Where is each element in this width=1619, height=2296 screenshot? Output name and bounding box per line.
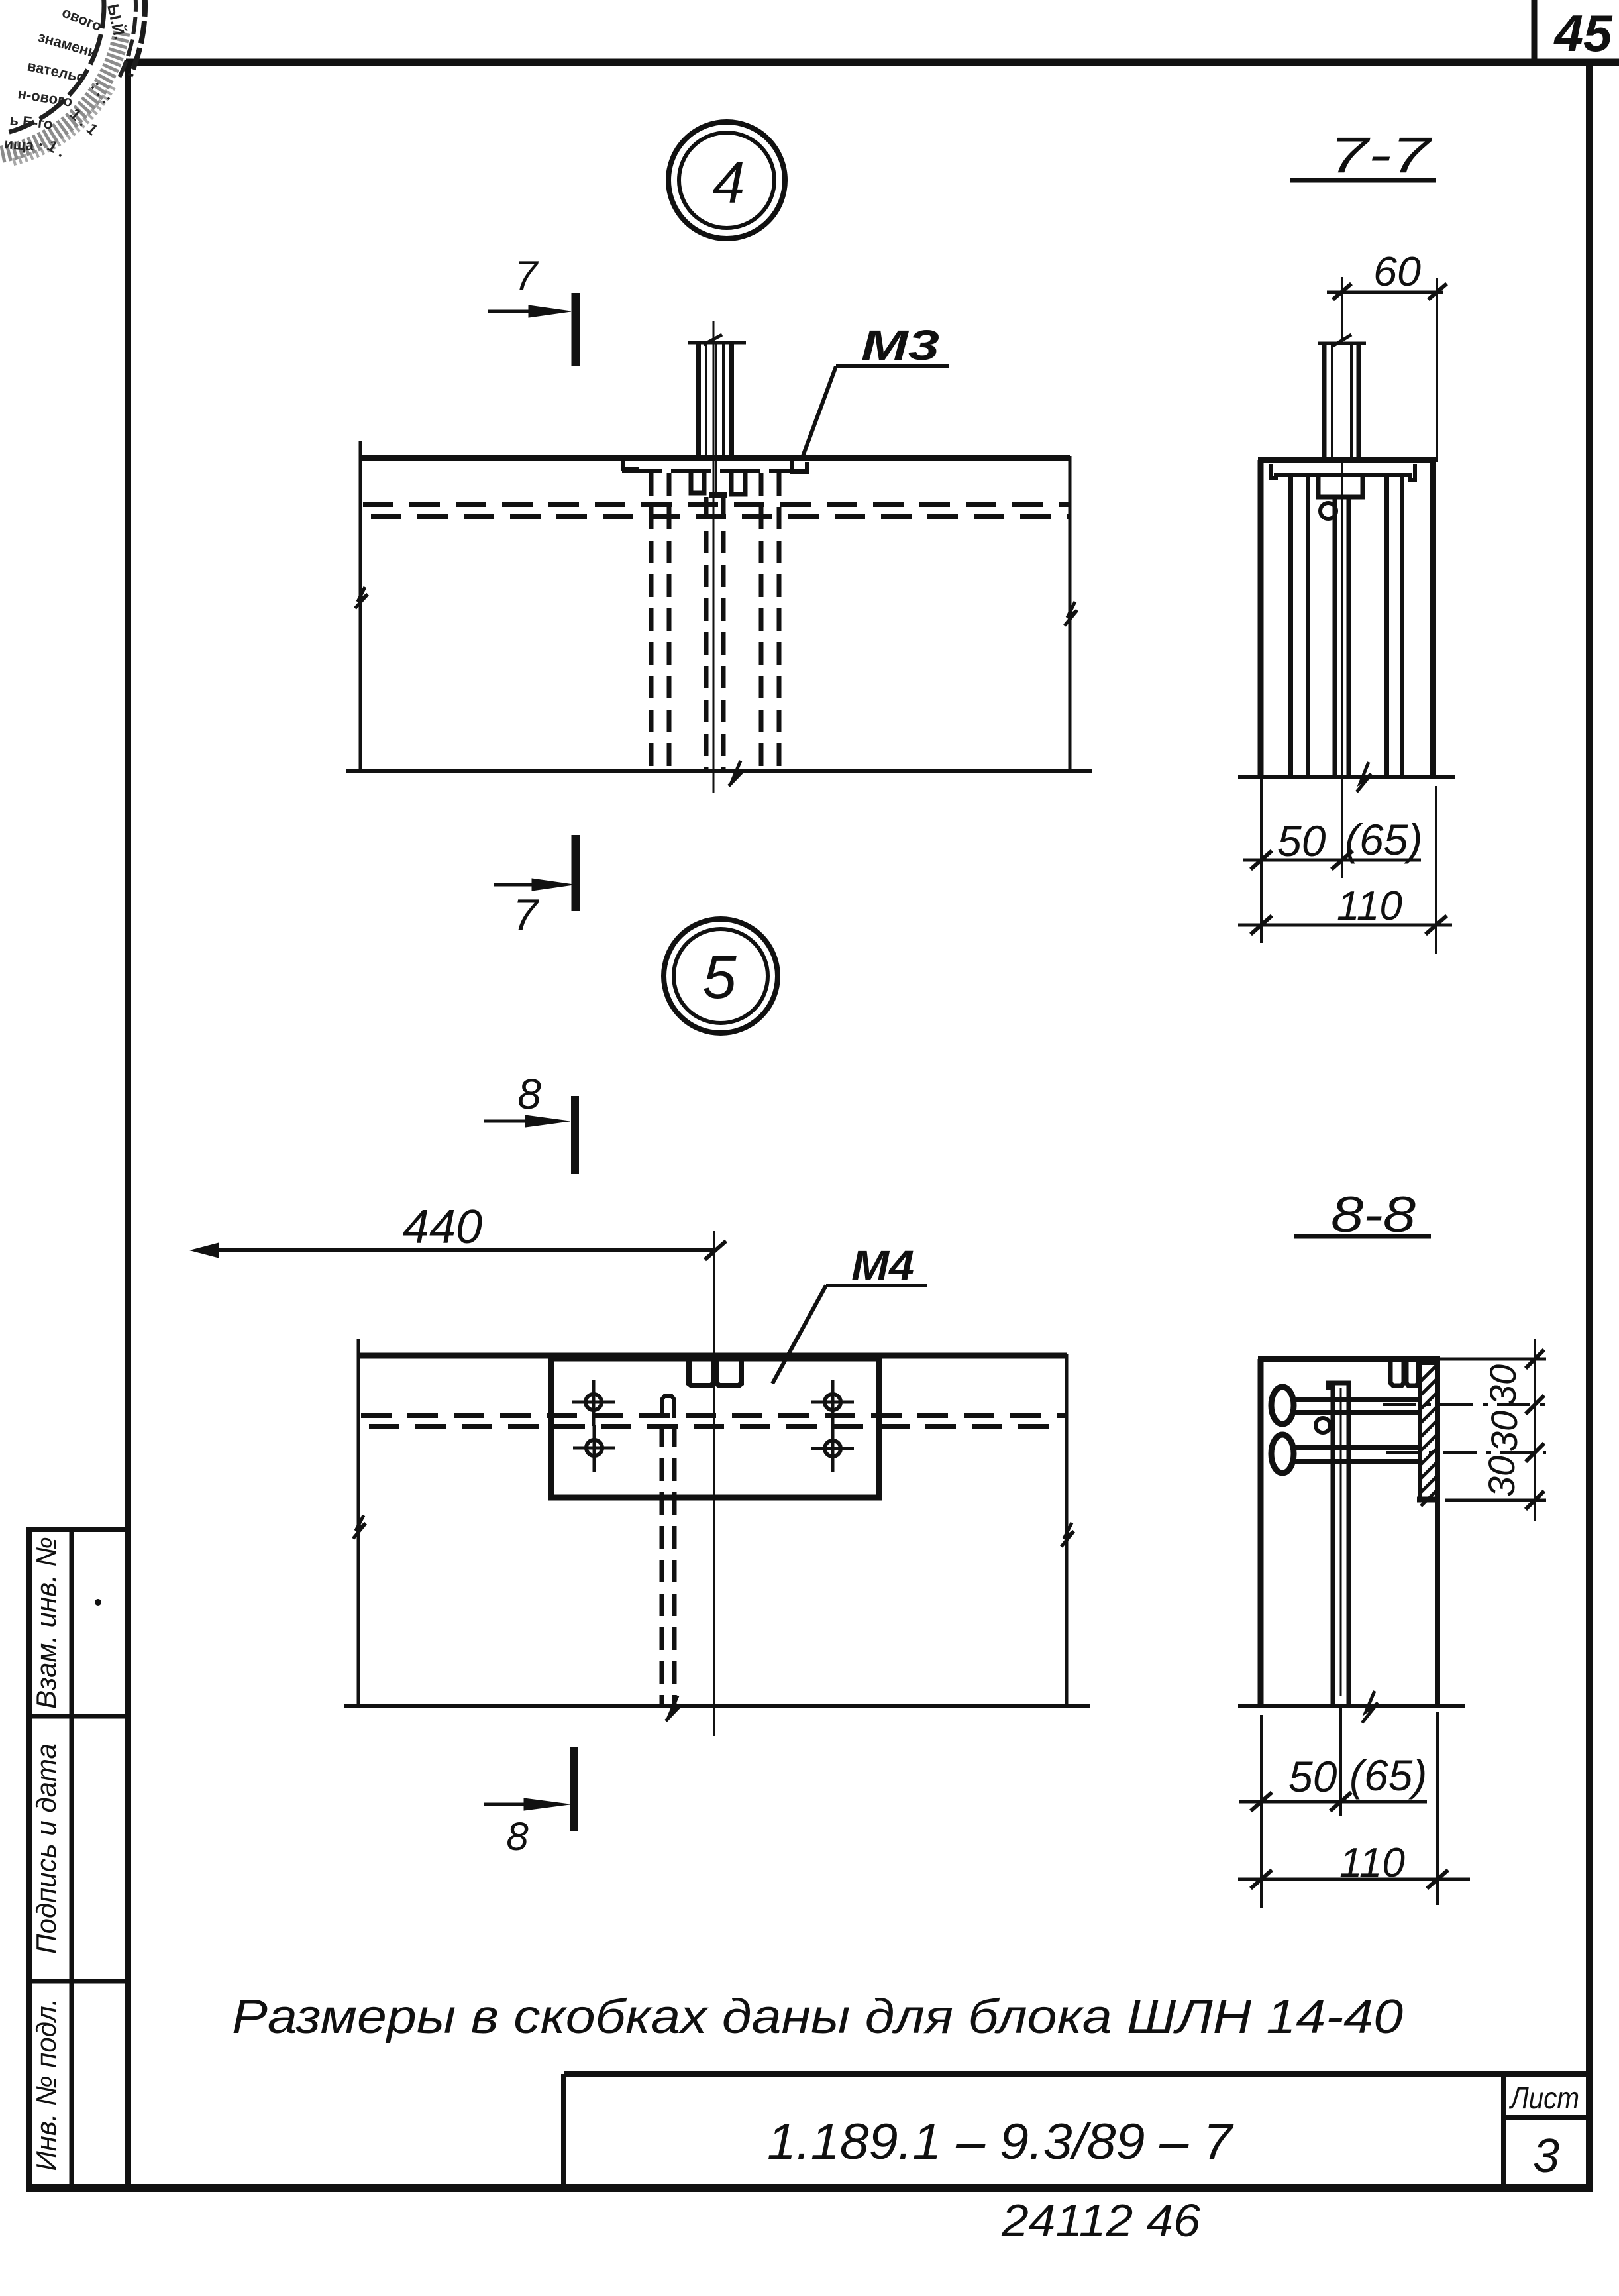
node: hidden anchor loop top [662, 1396, 674, 1418]
node: bolt M3 above plate [688, 341, 746, 345]
wire: hidden anchor line 2 [667, 473, 672, 771]
wire: plate top edge [360, 455, 1070, 461]
wire: plate right edge [1069, 456, 1072, 772]
node: embedded plate (hatched, section) [1420, 1363, 1437, 1500]
svg-text:30: 30 [1482, 1364, 1524, 1405]
node: detail balloon 5 [664, 919, 778, 1033]
node: title block [564, 2074, 1589, 2188]
node: anchor tab left (plan) [689, 1361, 713, 1386]
node: dimension 110 (section 8-8) [1238, 1870, 1470, 1888]
svg-text:4: 4 [713, 150, 745, 215]
wire: underline of 7-7 [1290, 178, 1436, 183]
node: dimension chain 30/30/30 (section 8-8) [1383, 1339, 1546, 1521]
node: hole in anchor strip [1316, 1418, 1330, 1433]
wire: block right edge [1430, 460, 1436, 777]
wire: bolt axis centerline [1341, 460, 1343, 878]
wire: plate top edge [358, 1353, 1067, 1359]
node: bolt hole top-right [811, 1380, 854, 1426]
svg-text:30: 30 [1481, 1456, 1522, 1497]
svg-text:110: 110 [1339, 1840, 1405, 1886]
node: bolt hole bottom-left [573, 1425, 615, 1472]
node: anchor strip (section) [1328, 1383, 1349, 1706]
svg-text:7-7: 7-7 [1330, 127, 1433, 184]
svg-text:Подпись и дата: Подпись и дата [30, 1743, 62, 1954]
node: dimension 50 (65) (section 8-8) [1239, 1706, 1437, 1908]
wire: block right edge [1435, 1359, 1440, 1706]
node: section marker 8 (top) [484, 1096, 575, 1174]
node: embedded channel flange (section) [1271, 464, 1415, 480]
wire: channel rib 4 [1400, 477, 1404, 777]
wire: hidden outline dashed line (upper) [361, 1413, 1065, 1418]
wire: break mark bottom [1362, 1691, 1378, 1723]
svg-text:М3: М3 [861, 321, 939, 369]
node: bolt hole top-left [572, 1380, 615, 1426]
wire: break mark on left edge [355, 587, 368, 608]
node: dimension 110 (section 7-7) [1238, 916, 1452, 934]
node: embedded channel M3 outline under plate [622, 469, 807, 473]
node: dot mark in margin box [95, 1599, 101, 1606]
wire: hidden anchor line right [672, 1425, 677, 1706]
wire: plate bottom edge [344, 1704, 1090, 1708]
node: anchor nut pocket [1318, 476, 1363, 497]
wire: hidden anchor line 4 [721, 497, 726, 771]
node: dimension 60 (section 7-7) [1327, 277, 1447, 462]
wire: page number box separator [1532, 0, 1538, 64]
node: anchor washer bar [709, 492, 727, 498]
node: section marker 7 (bottom) [494, 835, 576, 911]
svg-text:7: 7 [513, 890, 539, 940]
node: section marker 7 (top) [488, 293, 576, 366]
node: channel slot pocket right [731, 472, 745, 494]
wire: anchor strip left [1333, 499, 1337, 777]
wire: hidden anchor line 1 [649, 473, 654, 771]
node: bolt 2 head [1271, 1435, 1294, 1473]
svg-text:30: 30 [1483, 1411, 1525, 1452]
node: hole in channel web [1320, 503, 1336, 519]
wire: break mark on right edge [1061, 1523, 1074, 1547]
wire: drawing frame left border [125, 60, 131, 2189]
svg-text:(65): (65) [1349, 1751, 1427, 1800]
node: bolt hole bottom-right [811, 1426, 854, 1472]
wire: plate left edge [359, 441, 362, 772]
wire: plate right edge [1065, 1354, 1069, 1707]
wire: break mark on bottom edge [666, 1696, 680, 1721]
svg-text:60: 60 [1373, 249, 1421, 295]
wire: channel rib 1 [1288, 477, 1293, 777]
wire: block bottom edge [1238, 775, 1455, 779]
wire: bolt axis centerline [713, 321, 715, 500]
node: section 8-8 view [1238, 1359, 1465, 1723]
svg-text:7: 7 [515, 253, 539, 299]
wire: anchor strip right [1347, 499, 1351, 777]
svg-text:Инв. № подл.: Инв. № подл. [30, 1998, 62, 2171]
svg-text:440: 440 [403, 1201, 482, 1254]
svg-text:Размеры в скобках даны для: Размеры в скобках даны для блока ШЛН 14-… [232, 1991, 1403, 2044]
svg-text:ища: ища [4, 135, 35, 154]
wire: drawing frame top border [126, 59, 1619, 66]
node: section marker 8 (bottom) [484, 1747, 574, 1831]
wire: channel rib 3 [1384, 477, 1389, 777]
svg-text:1.189.1 – 9.3/89 – 7: 1.189.1 – 9.3/89 – 7 [767, 2114, 1234, 2170]
wire: drawing frame bottom border [26, 2184, 1593, 2192]
node: anchor tab (section) [1390, 1362, 1404, 1386]
wire: bolt 1 shaft [1293, 1397, 1421, 1402]
stamp: round ink stamp (top-left corner, partially visible) [0, 0, 145, 162]
svg-text:5: 5 [702, 944, 737, 1011]
node: dimension 50 (65) (section 7-7) [1243, 779, 1436, 954]
wire: block bottom edge [1238, 1704, 1465, 1708]
wire: block left edge [1258, 1359, 1264, 1706]
svg-text:М4: М4 [851, 1242, 914, 1289]
svg-text:8: 8 [506, 1814, 529, 1859]
wire: hidden anchor line 3 [704, 497, 709, 771]
node: anchor tab right (plan) [717, 1361, 741, 1386]
svg-text:45: 45 [1553, 4, 1613, 62]
node: anchor bolt (section 7-7) [1318, 342, 1366, 345]
wire: hidden outline dashed line (upper) [363, 502, 1069, 507]
wire: plate left edge [357, 1339, 360, 1707]
svg-text:110: 110 [1337, 883, 1402, 929]
node: detail 5 block plan view [344, 1339, 1090, 1736]
node: detail 4 block plan view [346, 321, 1092, 793]
node: embedded plate M4 outline [551, 1358, 879, 1498]
wire: break mark bottom [1357, 762, 1371, 792]
wire: bolt 2 shaft [1293, 1445, 1421, 1450]
wire: hidden anchor line 5 [759, 473, 764, 771]
svg-text:24112 46: 24112 46 [1001, 2195, 1200, 2246]
wire: break mark on left edge [353, 1515, 366, 1539]
wire: break mark on right edge [1065, 602, 1077, 626]
node: left margin stamp column [26, 1529, 128, 2188]
node: channel slot pocket left [691, 472, 704, 493]
svg-text:Лист: Лист [1508, 2081, 1579, 2115]
wire: underline of 8-8 [1294, 1234, 1431, 1239]
svg-text:8: 8 [517, 1070, 541, 1118]
wire: channel rib 2 [1306, 477, 1310, 777]
svg-text:50: 50 [1288, 1752, 1337, 1801]
wire: hidden outline dashed line (lower) [371, 514, 1069, 519]
node: bolt 1 head [1271, 1387, 1294, 1424]
svg-text:3: 3 [1533, 2130, 1559, 2183]
svg-text:50: 50 [1277, 816, 1326, 865]
wire: block top edge [1258, 457, 1436, 463]
node: dimension 440 [191, 1231, 726, 1358]
svg-text:Взам. инв. №: Взам. инв. № [30, 1537, 62, 1709]
node: section 7-7 view [1238, 335, 1455, 878]
wire: drawing frame right border [1586, 62, 1593, 2192]
node: label M4 with leader [772, 1285, 927, 1384]
wire: centre axis [713, 1356, 715, 1736]
svg-text:(65): (65) [1345, 815, 1422, 864]
wire: hidden anchor line 6 [777, 473, 782, 771]
wire: block left edge [1258, 460, 1264, 777]
wire: hidden anchor line left [660, 1425, 664, 1706]
wire: break mark on bottom edge [729, 761, 743, 786]
wire: hidden outline dashed line (lower) [369, 1424, 1065, 1429]
wire: plate bottom edge [346, 769, 1092, 773]
node: detail balloon 4 [668, 122, 785, 239]
node: label M3 with leader [803, 366, 949, 456]
wire: block top edge [1258, 1356, 1440, 1362]
